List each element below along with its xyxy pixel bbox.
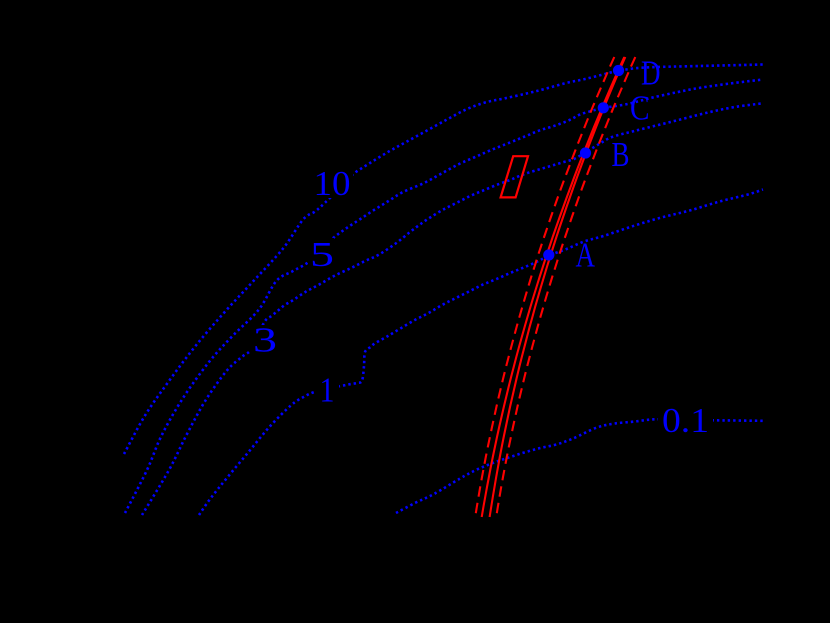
birthline dashed left (red) — [475, 57, 614, 517]
svg-text:5: 5 — [310, 235, 334, 274]
svg-text:0.1: 0.1 — [662, 401, 709, 440]
svg-text:10: 10 — [314, 164, 351, 203]
track curve 10 Msun (blue dotted) — [124, 65, 763, 455]
red parallelogram marker — [501, 156, 528, 197]
track curve 0.1 Msun (blue dotted) — [396, 419, 763, 513]
svg-text:D: D — [641, 54, 661, 93]
birthline dashed right (red) — [496, 57, 635, 517]
label mask 10 — [312, 169, 353, 198]
svg-text:B: B — [612, 135, 630, 174]
point B (blue dot) — [580, 147, 591, 158]
point C (blue dot) — [598, 102, 609, 113]
point A (blue dot) — [543, 249, 554, 260]
svg-text:A: A — [576, 236, 596, 275]
birthline solid right (red) — [490, 57, 626, 517]
svg-text:C: C — [630, 89, 650, 128]
point D (blue dot) — [613, 65, 624, 76]
label mask 5 — [308, 238, 334, 269]
label mask 1 — [316, 376, 339, 404]
label mask 0.1 — [658, 406, 713, 435]
label mask 3 — [250, 325, 277, 355]
svg-text:1: 1 — [320, 371, 335, 410]
track curve 5 Msun (blue dotted) — [125, 80, 763, 514]
track curve 3 Msun (blue dotted) — [142, 103, 763, 515]
track curve 1 Msun (blue dotted) — [199, 190, 763, 516]
birthline solid left (red) — [482, 57, 625, 517]
svg-text:3: 3 — [253, 321, 277, 360]
